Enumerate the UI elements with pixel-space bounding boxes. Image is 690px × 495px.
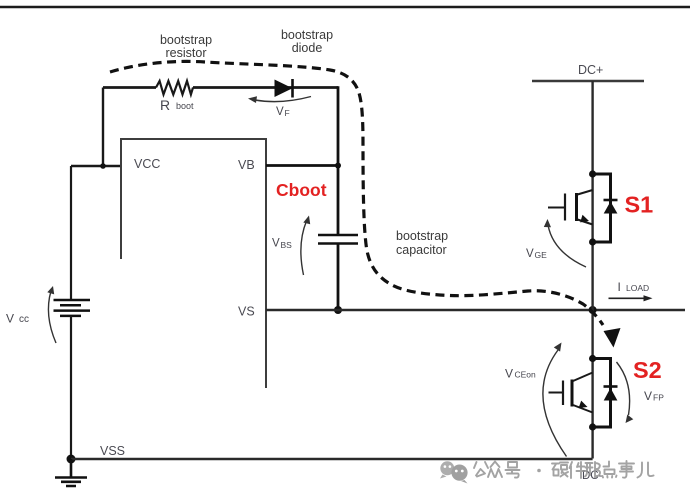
node VS-phase junction bbox=[589, 306, 597, 314]
arrow Vcc bbox=[48, 291, 56, 343]
svg-text:DC+: DC+ bbox=[578, 63, 603, 77]
watermark logo and text (decorative, drawn approximations) bbox=[440, 461, 654, 484]
wire top horizontal (Vcc to VB node) bbox=[103, 86, 338, 89]
svg-text:FP: FP bbox=[653, 393, 664, 403]
svg-text:V: V bbox=[644, 389, 652, 403]
wire VCC pin bbox=[71, 165, 121, 167]
svg-text:bootstrap: bootstrap bbox=[160, 33, 212, 47]
wire VSS horizontal bbox=[71, 458, 593, 461]
diode bootstrap (anode left) bbox=[275, 80, 293, 98]
svg-text:CEon: CEon bbox=[515, 370, 537, 380]
arrow VFP bbox=[617, 362, 630, 415]
node cap-VS junction bbox=[334, 306, 342, 314]
arrow VCEon bbox=[543, 350, 567, 457]
node VB-cap junction bbox=[335, 163, 341, 169]
diode S1 freewheel bbox=[604, 199, 618, 202]
svg-text:S1: S1 bbox=[625, 192, 654, 218]
svg-text:S2: S2 bbox=[633, 357, 662, 383]
svg-text:capacitor: capacitor bbox=[396, 243, 447, 257]
node S2 collector bbox=[589, 355, 596, 362]
svg-text:V: V bbox=[6, 312, 14, 326]
node S1 collector bbox=[589, 170, 596, 177]
resistor R_boot bbox=[156, 81, 193, 95]
svg-text:Cboot: Cboot bbox=[276, 180, 327, 200]
arrow VF bbox=[255, 97, 311, 102]
arrow VGE bbox=[548, 225, 586, 267]
arrow VBS bbox=[301, 221, 307, 275]
svg-text:V: V bbox=[272, 238, 280, 250]
capacitor Cboot plates bbox=[318, 235, 358, 244]
svg-text:V: V bbox=[505, 367, 513, 381]
svg-text:BS: BS bbox=[281, 240, 293, 250]
svg-text:bootstrap: bootstrap bbox=[396, 229, 448, 243]
node S2 emitter bbox=[589, 423, 596, 430]
transistor S2 (IGBT + antiparallel diode) bbox=[549, 355, 618, 431]
svg-text:VB: VB bbox=[238, 158, 255, 172]
svg-text:bootstrap: bootstrap bbox=[281, 28, 333, 42]
top border line bbox=[0, 6, 690, 9]
wire S2 diode loop bbox=[593, 359, 611, 428]
DC+ rail bbox=[532, 80, 644, 82]
wire VB pin bbox=[266, 164, 338, 167]
wire battery vertical bottom bbox=[70, 316, 72, 459]
diode S2 freewheel bbox=[604, 385, 618, 388]
svg-text:I: I bbox=[618, 280, 621, 294]
svg-text:V: V bbox=[526, 248, 534, 260]
svg-text:diode: diode bbox=[292, 41, 323, 55]
node S1 emitter bbox=[589, 238, 596, 245]
wire VS horizontal bbox=[266, 309, 685, 311]
wire S1 diode loop bbox=[593, 174, 611, 242]
svg-text:resistor: resistor bbox=[166, 46, 207, 60]
svg-text:F: F bbox=[285, 108, 290, 118]
IGBT S2 body bbox=[549, 392, 564, 394]
svg-text:V: V bbox=[276, 106, 284, 118]
node VSS junction bbox=[67, 455, 76, 464]
node VCC junction bbox=[100, 163, 106, 169]
IC driver box bbox=[121, 139, 266, 388]
svg-text:LOAD: LOAD bbox=[626, 283, 649, 293]
svg-text:VS: VS bbox=[238, 305, 255, 319]
svg-text:GE: GE bbox=[535, 250, 548, 260]
svg-text:VSS: VSS bbox=[100, 444, 125, 458]
wire capacitor vertical top bbox=[337, 86, 340, 235]
ground bbox=[55, 459, 87, 486]
wire battery vertical top bbox=[70, 166, 72, 300]
svg-text:cc: cc bbox=[19, 314, 29, 325]
battery V_cc plates bbox=[54, 300, 91, 316]
arrow I_LOAD bbox=[609, 297, 646, 299]
wire left vertical from top wire bbox=[102, 88, 104, 167]
IGBT S1 body bbox=[548, 207, 565, 209]
svg-text:boot: boot bbox=[176, 101, 194, 111]
dashed bootstrap charge path bbox=[110, 61, 603, 325]
wire capacitor vertical bottom bbox=[337, 244, 340, 311]
transistor S1 (IGBT + antiparallel diode) bbox=[548, 170, 618, 245]
wire phase-leg vertical bbox=[591, 81, 593, 459]
svg-text:VCC: VCC bbox=[134, 157, 160, 171]
svg-text:R: R bbox=[160, 97, 170, 113]
